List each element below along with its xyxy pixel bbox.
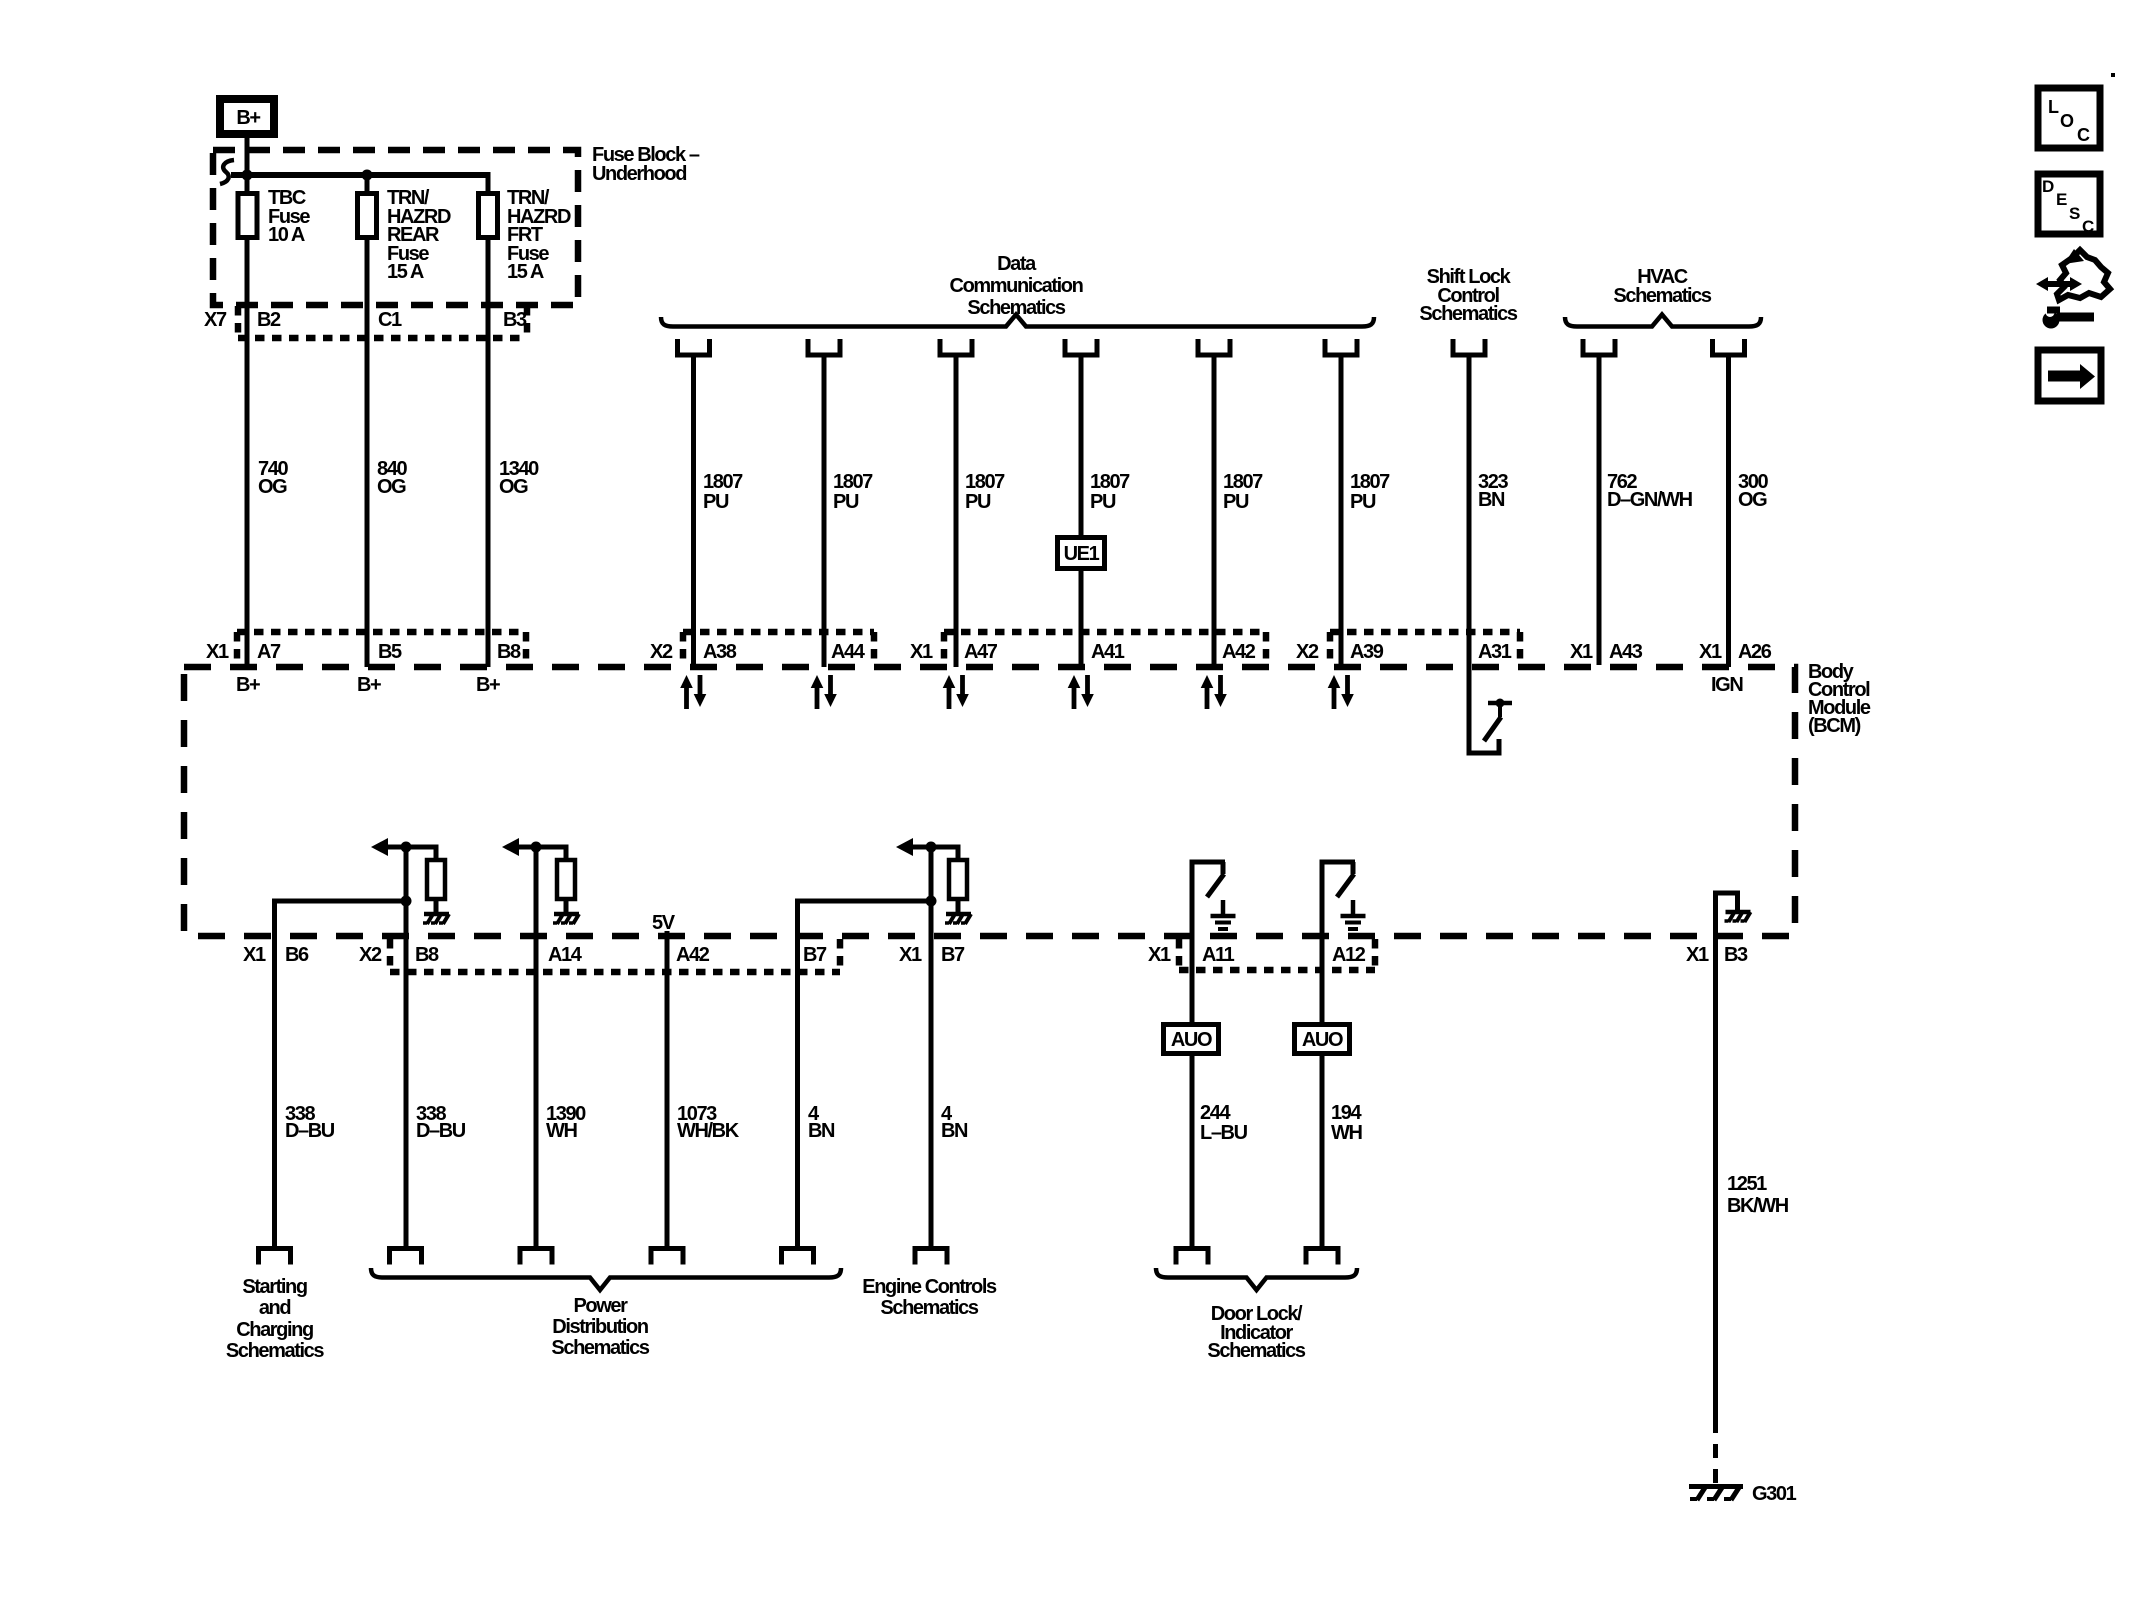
wire BCM pin A12: [1320, 862, 1325, 1022]
label wire 1390 WH: [546, 1103, 586, 1142]
svg-text:1807: 1807: [1350, 471, 1390, 493]
ground door lock A11: [1211, 900, 1236, 929]
svg-text:A43: A43: [1609, 641, 1643, 663]
node junction on TBC fuse wire: [242, 170, 253, 181]
svg-text:B+: B+: [236, 674, 260, 696]
svg-text:A31: A31: [1478, 641, 1512, 663]
driver output A14 arrow: [502, 838, 519, 856]
terminal A11 wire: [1176, 1249, 1208, 1265]
splice AUO A12: [1295, 1025, 1350, 1054]
driver output B8 arrow: [371, 838, 388, 856]
svg-text:B7: B7: [941, 944, 965, 966]
terminal data wire 3: [940, 339, 972, 355]
svg-text:OG: OG: [258, 476, 287, 498]
arrows bidirectional A41: [1068, 675, 1094, 709]
label wire 1807 PU (2): [833, 471, 873, 513]
svg-text:X1: X1: [1686, 944, 1709, 966]
svg-text:BN: BN: [808, 1120, 835, 1142]
splice UE1: [1058, 538, 1105, 569]
switch shift lock solenoid: [1467, 699, 1513, 756]
svg-text:Communication: Communication: [950, 275, 1083, 297]
svg-text:A12: A12: [1332, 944, 1366, 966]
svg-text:B+: B+: [236, 107, 260, 129]
wire UE1 to A41: [1079, 571, 1084, 667]
svg-text:Data: Data: [997, 253, 1037, 275]
terminal HVAC wire 1: [1583, 339, 1615, 355]
connector B+ battery feed: [220, 99, 274, 134]
svg-text:BN: BN: [941, 1120, 968, 1142]
icon arrow box: [2038, 350, 2101, 401]
label wire 1807 PU (3): [965, 471, 1005, 513]
svg-text:A26: A26: [1738, 641, 1772, 663]
wire BCM pin B3 ground feed: [1716, 893, 1741, 1419]
label Body Control Module (BCM): [1808, 661, 1871, 737]
svg-text:AUO: AUO: [1302, 1029, 1343, 1051]
arrows bidirectional A42: [1201, 675, 1227, 709]
ground G301: [1689, 1486, 1743, 1500]
label wire 338 D-BU (1): [285, 1103, 335, 1142]
label wire 740 OG: [258, 458, 288, 498]
label Data Communication Schematics: [950, 253, 1083, 319]
label wire 1807 PU (4): [1090, 471, 1130, 513]
wire 323 BN to A31: [1467, 357, 1472, 756]
brace power distribution: [371, 1268, 841, 1290]
svg-text:OG: OG: [1738, 489, 1767, 511]
svg-text:A44: A44: [831, 641, 866, 663]
fuse TBC 10A: [238, 194, 257, 238]
terminal shift lock wire: [1453, 339, 1485, 355]
splice AUO A11: [1164, 1025, 1219, 1054]
svg-text:1807: 1807: [833, 471, 873, 493]
svg-text:Power: Power: [573, 1295, 628, 1317]
svg-text:X1: X1: [899, 944, 922, 966]
label Engine Controls Schematics: [862, 1276, 997, 1319]
wire to TRN REAR fuse: [365, 175, 370, 193]
svg-text:5V: 5V: [652, 912, 676, 934]
svg-text:Schematics: Schematics: [880, 1297, 978, 1319]
connector X1 door lock dotted box: [1179, 939, 1375, 970]
label wire 1807 PU (5): [1223, 471, 1263, 513]
label wire 1251 BK/WH: [1727, 1173, 1789, 1217]
svg-text:UE1: UE1: [1064, 543, 1100, 565]
connector X1 ticks fuse feeds: [237, 632, 526, 664]
label Fuse Block - Underhood: [592, 144, 700, 185]
terminal B6 wire: [259, 1249, 291, 1265]
svg-text:X2: X2: [359, 944, 382, 966]
svg-text:X1: X1: [1699, 641, 1722, 663]
wire dashed to G301: [1713, 1419, 1718, 1489]
wire BCM pin A42 5V: [665, 931, 670, 1246]
wire bus inside fuse block: [231, 172, 488, 178]
svg-text:D: D: [2042, 177, 2054, 196]
label Shift Lock Control Schematics: [1419, 266, 1517, 325]
svg-text:B+: B+: [476, 674, 500, 696]
brace door lock: [1156, 1268, 1357, 1290]
label wire 244 L-BU: [1200, 1102, 1248, 1144]
icon vehicle data wrench: [2036, 249, 2110, 329]
terminal data wire 1: [678, 339, 710, 355]
connector X2 ticks data 1: [683, 632, 874, 664]
wire 1807 PU to A44: [822, 357, 827, 667]
terminal B8 wire: [390, 1249, 422, 1265]
label wire 4 BN (2): [941, 1103, 968, 1142]
wire bus to TRN FRT fuse: [486, 172, 491, 193]
wire fuse TRN FRT to BCM pin B8: [486, 240, 491, 667]
wire 1807 PU to UE1: [1079, 357, 1084, 535]
splice curl at B+ entry: [220, 160, 234, 184]
connector X1 ticks data 2: [944, 632, 1266, 664]
label TRN/HAZRD FRT Fuse 15 A: [507, 187, 571, 283]
wire link B6 to B8: [275, 901, 407, 939]
svg-text:A41: A41: [1091, 641, 1125, 663]
svg-text:1807: 1807: [703, 471, 743, 493]
brace HVAC: [1565, 315, 1761, 327]
wire resistor to ground B8: [434, 899, 439, 912]
resistor pull-up B8: [427, 860, 445, 899]
terminal A42 wire: [651, 1249, 683, 1265]
svg-text:Schematics: Schematics: [1419, 303, 1517, 325]
ground chassis B8: [423, 914, 449, 924]
wire fuse TBC to BCM pin A7: [245, 240, 250, 667]
svg-text:A39: A39: [1350, 641, 1384, 663]
svg-text:B+: B+: [357, 674, 381, 696]
svg-text:PU: PU: [1350, 491, 1376, 513]
wire 1807 PU to A38: [691, 357, 696, 667]
svg-text:WH: WH: [546, 1120, 577, 1142]
svg-text:15 A: 15 A: [507, 261, 544, 283]
terminal HVAC wire 2: [1713, 339, 1745, 355]
svg-text:OG: OG: [499, 476, 528, 498]
arrows bidirectional A38: [680, 675, 706, 709]
svg-text:B7: B7: [803, 944, 827, 966]
svg-text:A42: A42: [676, 944, 710, 966]
svg-text:C1: C1: [378, 309, 402, 331]
svg-text:D–BU: D–BU: [416, 1120, 466, 1142]
connector X2 ticks data 3: [1330, 632, 1520, 664]
svg-text:1807: 1807: [965, 471, 1005, 493]
svg-text:Schematics: Schematics: [226, 1340, 324, 1362]
label wire 194 WH: [1331, 1102, 1362, 1144]
svg-text:Schematics: Schematics: [1207, 1340, 1305, 1362]
BCM dashed outline: [184, 667, 1795, 936]
svg-text:15 A: 15 A: [387, 261, 424, 283]
svg-text:PU: PU: [1223, 491, 1249, 513]
svg-text:Charging: Charging: [236, 1319, 313, 1341]
icon DESC box: [2038, 174, 2100, 236]
label Power Distribution Schematics: [551, 1295, 649, 1359]
svg-text:A14: A14: [548, 944, 583, 966]
switch door lock driver A12: [1320, 862, 1356, 897]
svg-text:BN: BN: [1478, 489, 1505, 511]
label wire 1807 PU (1): [703, 471, 743, 513]
svg-text:1807: 1807: [1223, 471, 1263, 493]
ground chassis BCM B3: [1725, 912, 1751, 922]
terminal B7 wire: [782, 1249, 814, 1265]
label TRN/HAZRD REAR Fuse 15 A: [387, 187, 451, 283]
icon LOC box: [2038, 88, 2100, 148]
svg-text:B2: B2: [257, 309, 281, 331]
node junction driver B8: [401, 842, 412, 853]
wire 300 OG to A26: [1726, 357, 1731, 667]
ground door lock A12: [1341, 900, 1366, 929]
svg-text:B3: B3: [503, 309, 527, 331]
svg-text:PU: PU: [965, 491, 991, 513]
svg-text:A7: A7: [257, 641, 281, 663]
terminal A12 wire: [1306, 1249, 1338, 1265]
arrows bidirectional A39: [1328, 675, 1354, 709]
node junction driver A14: [531, 842, 542, 853]
svg-text:S: S: [2069, 204, 2080, 223]
svg-text:B6: B6: [285, 944, 309, 966]
svg-text:X1: X1: [1570, 641, 1593, 663]
wire BCM pin B7 output: [795, 901, 800, 1246]
svg-text:D–GN/WH: D–GN/WH: [1607, 489, 1693, 511]
wire resistor to ground B7: [956, 899, 961, 912]
wire 1807 PU to A47: [954, 357, 959, 667]
svg-text:B3: B3: [1724, 944, 1748, 966]
svg-text:194: 194: [1331, 1102, 1362, 1124]
label TBC Fuse 10 A: [268, 187, 310, 246]
wire driver B8: [385, 845, 439, 850]
ground chassis A14: [553, 914, 579, 924]
svg-text:E: E: [2056, 190, 2067, 209]
svg-text:A11: A11: [1202, 944, 1235, 966]
wire BCM pin B6 output: [272, 901, 277, 1246]
svg-text:L–BU: L–BU: [1200, 1122, 1248, 1144]
svg-text:Distribution: Distribution: [552, 1316, 648, 1338]
terminal data wire 5: [1198, 339, 1230, 355]
speck artifact: [2111, 73, 2115, 77]
wire fuse TRN REAR to BCM pin B5: [365, 240, 370, 667]
svg-text:10 A: 10 A: [268, 224, 305, 246]
svg-text:X7: X7: [204, 309, 227, 331]
wire driver A14: [516, 845, 569, 850]
connector X7 fuse block: [238, 306, 527, 338]
svg-text:X1: X1: [243, 944, 266, 966]
fuse block dashed outline: [213, 150, 578, 305]
node junction on TRN REAR fuse wire: [362, 170, 373, 181]
svg-text:PU: PU: [1090, 491, 1116, 513]
wire resistor feed B8: [434, 845, 439, 860]
label wire 338 D-BU (2): [416, 1103, 466, 1142]
svg-text:G301: G301: [1752, 1483, 1797, 1505]
node junction driver B7: [926, 842, 937, 853]
wire 762 D-GN/WH to A43: [1597, 357, 1602, 665]
wire BCM pin A14 output: [534, 847, 539, 1246]
svg-text:B8: B8: [497, 641, 521, 663]
svg-text:X1: X1: [206, 641, 229, 663]
wire link B7 to X1 B7: [798, 901, 932, 939]
svg-text:Engine Controls: Engine Controls: [862, 1276, 997, 1298]
label Door Lock Indicator Schematics: [1207, 1303, 1305, 1362]
svg-text:Starting: Starting: [242, 1276, 307, 1298]
label wire 1073 WH/BK: [677, 1103, 740, 1142]
svg-text:X2: X2: [650, 641, 673, 663]
resistor pull-up B7: [949, 860, 967, 899]
svg-text:IGN: IGN: [1711, 674, 1743, 696]
resistor pull-up A14: [557, 860, 575, 899]
fuse TRN/HAZRD FRT 15A: [479, 194, 498, 238]
brace data communication: [661, 315, 1374, 327]
svg-text:O: O: [2060, 111, 2074, 131]
svg-text:X2: X2: [1296, 641, 1319, 663]
svg-text:X1: X1: [1148, 944, 1171, 966]
label wire 840 OG: [377, 458, 407, 498]
switch door lock driver A11: [1190, 862, 1226, 897]
svg-text:B8: B8: [415, 944, 439, 966]
svg-text:PU: PU: [833, 491, 859, 513]
label wire 300 OG: [1738, 471, 1768, 511]
svg-text:244: 244: [1200, 1102, 1231, 1124]
svg-text:AUO: AUO: [1171, 1029, 1212, 1051]
wire 1807 PU to A42: [1212, 357, 1217, 667]
wire BCM pin B8 output: [404, 847, 409, 1246]
wire resistor feed A14: [564, 845, 569, 860]
terminal X1 B7 wire: [915, 1249, 947, 1265]
wire 1807 PU to A39: [1339, 357, 1344, 667]
svg-text:Schematics: Schematics: [1613, 285, 1711, 307]
svg-text:D–BU: D–BU: [285, 1120, 335, 1142]
terminal data wire 4: [1065, 339, 1097, 355]
label wire 323 BN: [1478, 471, 1508, 511]
svg-text:(BCM): (BCM): [1808, 715, 1861, 737]
connector X2 bottom dotted box: [390, 939, 840, 972]
wire BCM pin A11: [1190, 862, 1195, 1022]
fuse TRN/HAZRD REAR 15A: [358, 194, 377, 238]
arrows bidirectional A44: [811, 675, 837, 709]
label wire 762 D-GN/WH: [1607, 471, 1693, 511]
svg-text:C: C: [2077, 125, 2090, 145]
svg-text:OG: OG: [377, 476, 406, 498]
svg-text:A38: A38: [703, 641, 737, 663]
label Starting and Charging Schematics: [226, 1276, 324, 1362]
svg-text:WH/BK: WH/BK: [677, 1120, 740, 1142]
svg-text:Underhood: Underhood: [592, 163, 686, 185]
wire to TBC fuse: [245, 175, 250, 193]
svg-text:WH: WH: [1331, 1122, 1362, 1144]
wire B+ to fuse block: [245, 138, 250, 176]
label HVAC Schematics: [1613, 266, 1711, 307]
node junction B7 link: [926, 896, 937, 907]
wire BCM pin X1 B7 output: [929, 847, 934, 1246]
node junction B6 link: [401, 896, 412, 907]
wire resistor to ground A14: [564, 899, 569, 912]
svg-text:1251: 1251: [1727, 1173, 1767, 1195]
svg-text:B5: B5: [378, 641, 402, 663]
svg-text:A47: A47: [964, 641, 998, 663]
svg-text:A42: A42: [1222, 641, 1256, 663]
svg-text:PU: PU: [703, 491, 729, 513]
svg-text:X1: X1: [910, 641, 933, 663]
arrows bidirectional A47: [943, 675, 969, 709]
driver output B7 arrow: [896, 838, 913, 856]
label wire 4 BN (1): [808, 1103, 835, 1142]
svg-text:and: and: [259, 1297, 291, 1319]
label wire 1340 OG: [499, 458, 539, 498]
label wire 1807 PU (6): [1350, 471, 1390, 513]
terminal A14 wire: [520, 1249, 552, 1265]
wire driver B7: [910, 845, 961, 850]
svg-text:BK/WH: BK/WH: [1727, 1195, 1789, 1217]
terminal data wire 2: [808, 339, 840, 355]
svg-text:1807: 1807: [1090, 471, 1130, 493]
svg-text:Schematics: Schematics: [551, 1337, 649, 1359]
svg-text:C: C: [2082, 217, 2094, 236]
svg-text:L: L: [2048, 97, 2059, 117]
ground chassis B7: [945, 914, 971, 924]
terminal data wire 6: [1325, 339, 1357, 355]
wire resistor feed B7: [956, 845, 961, 860]
